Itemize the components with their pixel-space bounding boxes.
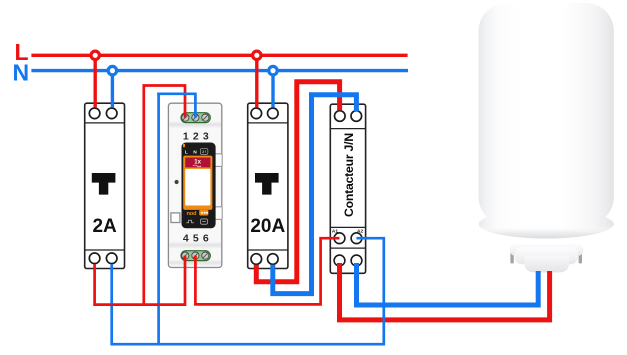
svg-text:3: 3 bbox=[203, 130, 209, 142]
thin red wire 2A out to relay pin 4 bbox=[95, 256, 185, 305]
heater cap bbox=[525, 256, 569, 273]
breaker 20A case bbox=[248, 103, 288, 268]
svg-text:Contacteur J/N: Contacteur J/N bbox=[342, 133, 356, 217]
svg-text:1x: 1x bbox=[194, 160, 201, 166]
relay orange frame bbox=[183, 156, 212, 210]
contactor J/N module bbox=[330, 104, 365, 273]
breaker 2A bottom terminal N bbox=[106, 253, 117, 264]
water heater body bbox=[479, 3, 614, 239]
relay white window bbox=[185, 169, 210, 206]
breaker 20A top terminal L bbox=[251, 108, 262, 119]
wire L-line to 2A bbox=[93, 55, 96, 107]
terminal A1 bbox=[334, 233, 345, 244]
svg-text:2: 2 bbox=[202, 150, 204, 154]
thick wire contactor out N to heater bbox=[357, 263, 539, 305]
breaker 2A bbox=[85, 103, 125, 268]
N line bbox=[31, 69, 408, 72]
thin blue wire 2A out N to contactor A2 bbox=[112, 238, 384, 344]
wire N-line to 2A bbox=[111, 71, 114, 108]
breaker 20A bottom terminal N bbox=[268, 254, 279, 265]
svg-text:4: 4 bbox=[183, 232, 189, 244]
svg-text:N: N bbox=[13, 60, 30, 86]
L line bbox=[31, 54, 407, 57]
relay bottom icon row bbox=[186, 219, 207, 224]
relay pin 4 screw bbox=[182, 252, 189, 259]
svg-text:L: L bbox=[185, 150, 188, 156]
contactor bottom terminal L bbox=[334, 255, 345, 266]
contactor case bbox=[330, 104, 365, 273]
breaker 2A case bbox=[85, 103, 125, 268]
heater mounting pins bbox=[510, 248, 513, 264]
relay right clips bbox=[215, 154, 222, 167]
thick wire contactor out L to heater bbox=[340, 263, 550, 320]
contactor bottom terminal N bbox=[351, 255, 362, 266]
breaker 20A bottom terminal L bbox=[251, 254, 262, 265]
relay bottom green terminal block bbox=[181, 251, 210, 261]
relay black device body bbox=[182, 143, 216, 229]
svg-text:N: N bbox=[193, 150, 197, 156]
svg-text:1: 1 bbox=[183, 130, 189, 142]
relay pin 1 screw bbox=[182, 114, 189, 121]
junction node N/2A bbox=[108, 66, 116, 74]
relay top green terminal block bbox=[181, 113, 210, 123]
thin blue wire long vertical to N distribution bbox=[157, 92, 160, 345]
junction node N/20A bbox=[269, 66, 277, 74]
wire L-line to 20A bbox=[255, 55, 258, 107]
contactor top terminal L bbox=[335, 111, 346, 122]
contactor top terminal N bbox=[351, 111, 362, 122]
heater collar bbox=[510, 244, 584, 257]
svg-text:2: 2 bbox=[193, 130, 199, 142]
junction node L/2A bbox=[91, 51, 99, 59]
svg-text:20A: 20A bbox=[250, 216, 285, 237]
svg-text:6: 6 bbox=[203, 232, 209, 244]
breaker 2A top terminal L bbox=[89, 108, 100, 119]
relay LED bbox=[175, 180, 179, 184]
junction node L/20A bbox=[253, 51, 261, 59]
breaker 20A top terminal N bbox=[268, 108, 279, 119]
svg-text:5: 5 bbox=[193, 232, 199, 244]
relay pin 5 screw bbox=[192, 252, 199, 259]
relay nodon logo bbox=[187, 210, 209, 217]
thin blue wire jumper to relay pin 2 bbox=[157, 94, 195, 118]
relay crimson band with 1x bbox=[185, 158, 210, 168]
relay pin 3 screw bbox=[202, 114, 209, 121]
relay module (white DIN body) bbox=[168, 103, 221, 267]
thin red wire relay pin 5 to contactor A1 bbox=[195, 238, 339, 304]
breaker 2A top terminal N bbox=[106, 108, 117, 119]
thin red wire branch to relay pin 1 bbox=[144, 86, 185, 306]
relay button bbox=[171, 213, 180, 223]
breaker 20A bbox=[248, 103, 288, 268]
breaker 20A switch icon bbox=[255, 173, 279, 195]
breaker 2A switch icon bbox=[92, 173, 116, 195]
wire N-line to 20A bbox=[271, 71, 274, 108]
svg-text:nod: nod bbox=[187, 211, 197, 217]
svg-text:2A: 2A bbox=[92, 216, 117, 237]
relay pin 6 screw bbox=[202, 252, 209, 259]
relay pin 2 screw bbox=[192, 114, 199, 121]
breaker 2A bottom terminal L bbox=[89, 253, 100, 264]
thick wire 20A out N to contactor top bbox=[273, 95, 357, 294]
terminal A2 bbox=[351, 233, 362, 244]
thick wire 20A out L to contactor top bbox=[256, 82, 339, 282]
